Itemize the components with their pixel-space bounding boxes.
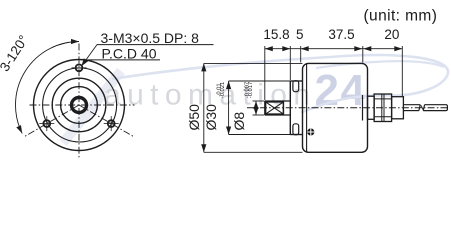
front view inner boss circle: [61, 87, 98, 124]
120deg arc dimension: [15, 39, 79, 135]
watermark swoosh inner: [316, 61, 444, 68]
rear shaft break tick: [421, 105, 423, 110]
bolt hole lower-right: [104, 116, 119, 131]
svg-text:3-M3×0.5 DP: 8: 3-M3×0.5 DP: 8: [101, 30, 200, 46]
boss bottom edge: [290, 134, 302, 136]
underline M3: [97, 44, 214, 46]
svg-text:P.C.D 40: P.C.D 40: [102, 45, 157, 61]
svg-text:Ø50: Ø50: [186, 104, 202, 131]
body rear recess line: [362, 95, 364, 121]
svg-text:5: 5: [296, 27, 304, 42]
front view diagonal centerline 330deg: [79, 105, 134, 137]
svg-text:37.5: 37.5: [328, 27, 354, 42]
svg-text:20: 20: [384, 27, 399, 42]
front view D30 boss circle: [52, 78, 106, 132]
watermark swoosh: [112, 55, 448, 112]
boss top edge: [290, 80, 302, 82]
svg-text:3-120°: 3-120°: [0, 33, 31, 75]
front view vertical centerline: [78, 44, 80, 158]
bolt hole lower-left: [39, 116, 54, 131]
svg-text:-0.021: -0.021: [220, 82, 226, 98]
underline PCD: [88, 59, 161, 61]
bolt hole top: [72, 64, 87, 71]
body outline: [303, 63, 368, 152]
watermark band in circle: [63, 71, 121, 143]
extension line connector end: [401, 46, 403, 96]
D30 dimension: [226, 81, 295, 135]
top dimension line: [265, 48, 403, 50]
dim arrows top: [265, 46, 403, 51]
front shaft top line: [265, 100, 291, 102]
connector nut: [374, 94, 392, 122]
front shaft bottom line: [265, 114, 291, 116]
svg-text:Ø8: Ø8: [231, 112, 247, 131]
svg-text:-0.017: -0.017: [248, 82, 254, 98]
rear shaft segment 2: [423, 105, 447, 111]
leader to top hole: [79, 45, 97, 68]
front view PCD40 circle: [43, 68, 117, 142]
extension line body front: [300, 46, 302, 63]
connector cylinder: [392, 97, 404, 119]
body bezel line: [306, 63, 308, 152]
front view horizontal centerline: [30, 104, 135, 106]
boss slot bottom: [293, 124, 299, 135]
side view centerline: [247, 107, 450, 109]
rear shaft segment 1: [403, 105, 420, 111]
svg-text:(unit: mm): (unit: mm): [364, 8, 438, 25]
front view diagonal centerline 210deg: [24, 105, 79, 137]
front view outer circle body D50: [34, 60, 125, 151]
front view shaft ring D8: [72, 98, 87, 113]
svg-text:15.8: 15.8: [263, 27, 289, 42]
D8 dimension: [253, 101, 265, 115]
front shaft end cap: [264, 101, 266, 115]
D50 dimension: [201, 63, 302, 152]
svg-text:Ø30: Ø30: [203, 104, 219, 131]
connector collar: [368, 96, 375, 119]
extension line rear cap: [362, 46, 364, 63]
boss slot top: [293, 81, 299, 92]
boss left face: [289, 81, 291, 135]
extension line shaft end: [264, 46, 266, 100]
shaft section box: [266, 102, 284, 114]
extension line boss face: [289, 46, 291, 80]
screw head: [307, 128, 314, 135]
